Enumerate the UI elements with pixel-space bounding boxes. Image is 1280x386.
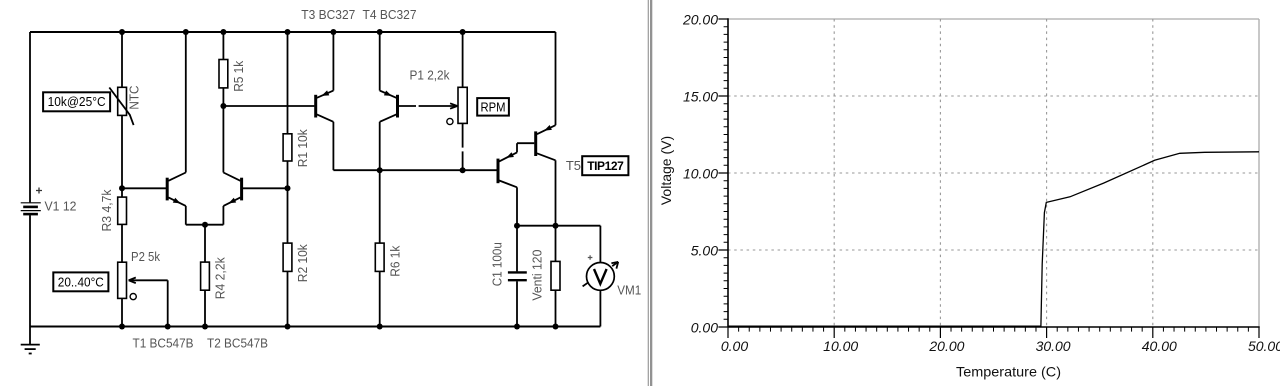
- wire to T3 base: [223, 105, 314, 107]
- wire T1 base lead: [122, 187, 166, 189]
- svg-text:R3 4,7k: R3 4,7k: [99, 189, 114, 231]
- node top rail x462 P1: [460, 29, 466, 35]
- transistor T5 second stage: [534, 131, 537, 156]
- svg-text:R6 1k: R6 1k: [387, 245, 402, 276]
- transistor T3: [314, 95, 317, 118]
- svg-text:Temperature (C): Temperature (C): [956, 364, 1061, 380]
- node T2 base column: [285, 185, 291, 191]
- svg-text:T1 BC547B: T1 BC547B: [133, 336, 194, 351]
- svg-text:20.00: 20.00: [928, 338, 964, 354]
- wire R4 bottom: [204, 290, 206, 326]
- battery V1 12: [21, 202, 41, 204]
- gridlines vertical dashed: [833, 19, 835, 327]
- svg-text:5.00: 5.00: [691, 243, 718, 259]
- svg-text:50.00: 50.00: [1248, 338, 1280, 354]
- transistor T2: [240, 178, 243, 201]
- wire right top vertical to T5 emitter: [555, 32, 557, 125]
- svg-text:R1 10k: R1 10k: [295, 129, 310, 167]
- transistor T5 first stage: [497, 159, 500, 184]
- voltmeter VM1: [587, 263, 615, 291]
- wire R3 to P2: [121, 224, 123, 262]
- wire T2 base lead: [243, 187, 288, 189]
- potentiometer P2 5k: [118, 262, 127, 298]
- node top rail x379 T4 emitter: [377, 29, 383, 35]
- wire T1 collector column: [185, 32, 187, 173]
- node y170 x462: [460, 167, 466, 173]
- wire P2 wiper with arrow: [130, 279, 168, 281]
- node emitters junction: [202, 222, 208, 228]
- wire P2 bottom: [121, 298, 123, 326]
- wire P1 bottom with gap: [462, 123, 464, 147]
- svg-text:10k@25°C: 10k@25°C: [48, 95, 106, 109]
- svg-text:NTC: NTC: [127, 86, 142, 110]
- terminal marker circle P1: [447, 118, 453, 124]
- svg-text:VM1: VM1: [617, 283, 641, 298]
- terminal marker circle P2: [130, 294, 136, 300]
- wire collectors bus y170: [333, 169, 496, 171]
- svg-text:R5 1k: R5 1k: [231, 60, 246, 91]
- node R5/T2 collector/T3 base: [220, 103, 226, 109]
- resistor R4 2,2k: [201, 262, 210, 290]
- node T1 base: [119, 185, 125, 191]
- y axis minor ticks: [724, 27, 728, 320]
- label box 20..40C: [53, 272, 108, 291]
- wire T4 base to P1 wiper arrow: [399, 105, 416, 107]
- wire T2 collector column: [222, 106, 224, 173]
- svg-text:C1 100u: C1 100u: [489, 242, 504, 286]
- wire fan node y225: [517, 225, 600, 227]
- svg-text:R4 2,2k: R4 2,2k: [213, 257, 228, 299]
- capacitor C1 100u: [516, 226, 518, 272]
- curve voltage vs temperature: [728, 152, 1259, 326]
- svg-text:30.00: 30.00: [1036, 338, 1071, 354]
- svg-text:Voltage (V): Voltage (V): [658, 136, 674, 205]
- x axis major ticks: [728, 327, 1259, 338]
- x axis: [728, 326, 1260, 328]
- resistor R6 1k: [379, 170, 381, 243]
- svg-text:V1 12: V1 12: [45, 199, 77, 214]
- svg-text:40.00: 40.00: [1142, 338, 1177, 354]
- wire left rail upper: [29, 32, 31, 202]
- svg-text:0.00: 0.00: [721, 338, 748, 354]
- svg-text:10.00: 10.00: [683, 166, 718, 182]
- wire emitters to R4: [204, 225, 206, 262]
- node bottom rail x287: [285, 324, 291, 330]
- resistor R3 4,7k: [118, 197, 127, 224]
- svg-text:0.00: 0.00: [691, 320, 718, 336]
- wire left rail lower: [29, 215, 31, 326]
- wire R2 bottom: [287, 271, 289, 326]
- node x517 y225: [514, 223, 520, 229]
- label box RPM: [477, 98, 509, 116]
- node top rail x223 R5: [220, 29, 226, 35]
- node bottom rail x379: [377, 324, 383, 330]
- potentiometer P1 2,2k: [458, 87, 467, 123]
- node top rail / NTC column: [119, 29, 125, 35]
- wire NTC to T1 base node: [121, 115, 123, 197]
- svg-text:T2 BC547B: T2 BC547B: [207, 336, 268, 351]
- x axis minor ticks: [739, 327, 1249, 332]
- node bottom rail x205: [202, 324, 208, 330]
- wire R1 to R2: [287, 161, 289, 243]
- plot frame right: [1258, 19, 1260, 327]
- svg-text:TIP127: TIP127: [587, 159, 624, 173]
- svg-text:20.00: 20.00: [682, 12, 718, 28]
- y axis: [727, 18, 729, 327]
- svg-text:Venti 120: Venti 120: [529, 250, 544, 301]
- svg-text:20..40°C: 20..40°C: [58, 275, 104, 289]
- node bottom rail x517: [514, 324, 520, 330]
- wire bottom rail: [30, 326, 600, 328]
- node top rail x333 T3 emitter: [330, 29, 336, 35]
- node bottom rail x167: [165, 324, 171, 330]
- resistor R5 1k: [219, 60, 228, 88]
- node x555 y225: [553, 223, 559, 229]
- label box 10k@25C: [43, 92, 110, 111]
- wire R5 bottom: [222, 88, 224, 106]
- ground: [29, 327, 31, 345]
- fan Venti 120: [555, 226, 557, 262]
- node bottom rail x122: [119, 324, 125, 330]
- resistor R2 10k: [283, 243, 292, 271]
- wire to voltmeter: [599, 226, 601, 263]
- svg-text:T3 BC327: T3 BC327: [301, 7, 355, 22]
- wire top rail: [30, 31, 556, 33]
- node y170 x379: [377, 167, 383, 173]
- node top rail x287 R1: [285, 29, 291, 35]
- gridlines horizontal dashed: [728, 249, 1259, 251]
- svg-text:R2 10k: R2 10k: [295, 244, 310, 282]
- node bottom rail x555: [553, 324, 559, 330]
- plot frame top: [728, 18, 1259, 20]
- svg-text:RPM: RPM: [481, 100, 506, 115]
- panel divider: [648, 0, 649, 386]
- svg-text:P2 5k: P2 5k: [131, 249, 160, 264]
- resistor R1 10k: [283, 134, 292, 161]
- y axis major ticks: [718, 19, 728, 327]
- svg-text:15.00: 15.00: [683, 89, 718, 105]
- svg-text:T4 BC327: T4 BC327: [363, 7, 417, 22]
- svg-text:10.00: 10.00: [823, 338, 858, 354]
- transistor T4: [396, 95, 399, 118]
- svg-text:P1 2,2k: P1 2,2k: [410, 68, 450, 83]
- label box TIP127: [582, 156, 628, 175]
- svg-text:T5: T5: [566, 158, 581, 173]
- thermistor NTC: [118, 87, 127, 115]
- node top rail x186: [183, 29, 189, 35]
- transistor T1: [166, 178, 169, 201]
- wire NTC column top: [121, 32, 123, 87]
